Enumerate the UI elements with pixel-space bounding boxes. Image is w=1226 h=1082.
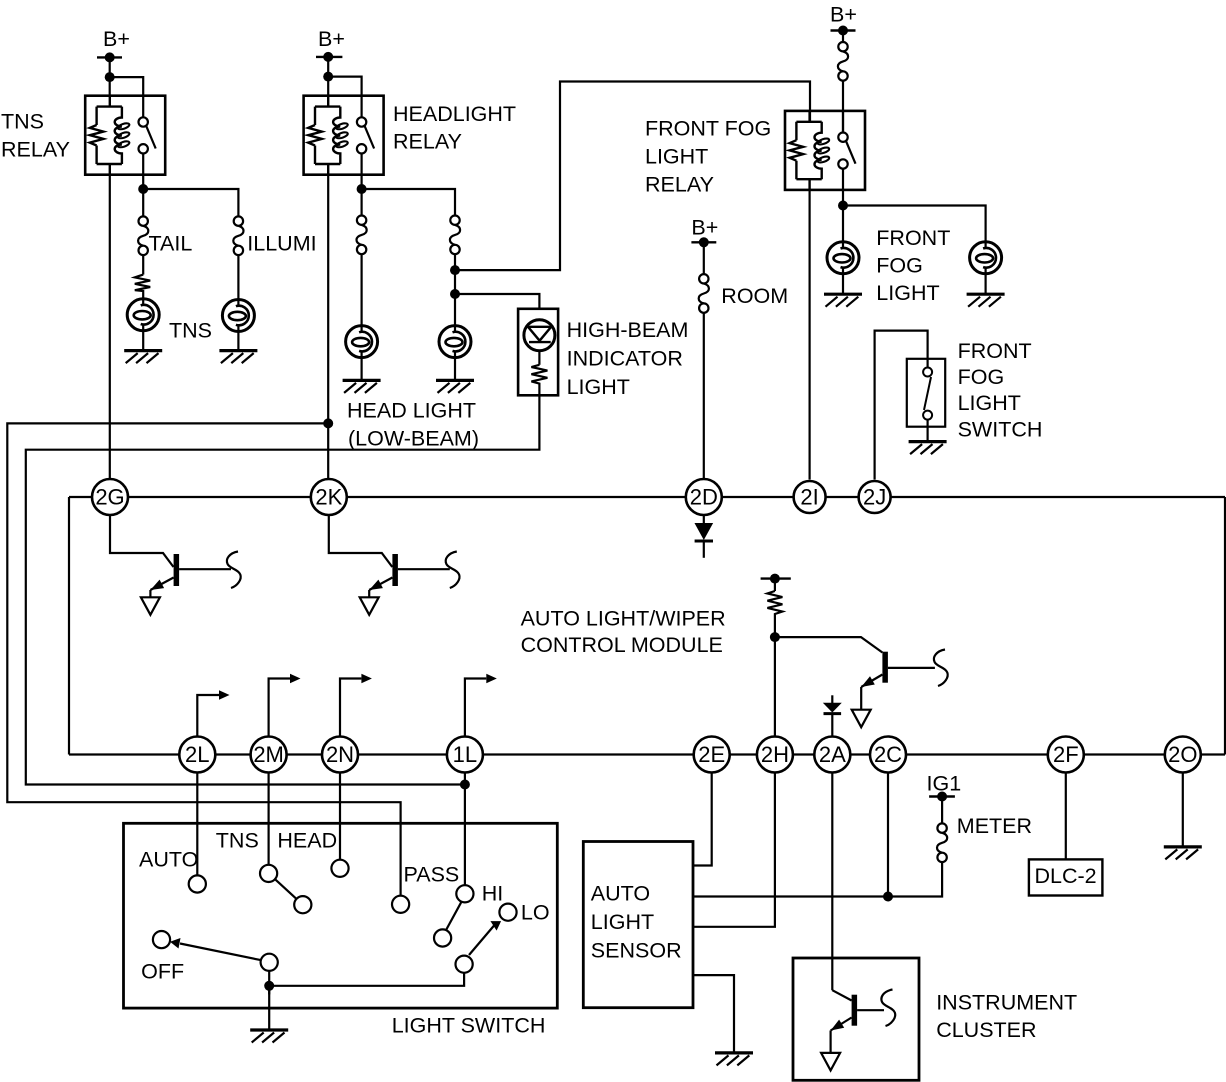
svg-text:HI: HI bbox=[482, 882, 504, 906]
bulb front fog left bbox=[827, 242, 859, 274]
node: low-beam junction bbox=[323, 418, 333, 428]
ground (ILLUMI bulb) bbox=[219, 351, 257, 364]
svg-text:METER: METER bbox=[957, 814, 1032, 838]
node: 1L junction bbox=[460, 780, 470, 790]
wire IG1 to fuse bbox=[941, 797, 943, 824]
wire tap to high-beam indicator bbox=[455, 294, 539, 309]
svg-text:2J: 2J bbox=[863, 485, 886, 510]
svg-text:2H: 2H bbox=[761, 742, 789, 767]
wire HL coil to 2K bbox=[327, 175, 329, 480]
wire 2N to HEAD contact bbox=[339, 772, 341, 860]
DLC-2 box bbox=[1029, 859, 1103, 895]
arrow above 2L bbox=[197, 695, 219, 737]
svg-text:ILLUMI: ILLUMI bbox=[247, 231, 316, 255]
wire junction to relay switch bbox=[110, 77, 144, 96]
ground (fog left) bbox=[824, 294, 862, 307]
wire ILLUMI fuse to bulb bbox=[237, 255, 239, 299]
bulb headlight left bbox=[346, 326, 378, 358]
contact TNS + blade bbox=[260, 865, 277, 882]
ground (Q1 emitter) bbox=[141, 597, 160, 615]
svg-text:LIGHT: LIGHT bbox=[958, 391, 1021, 415]
svg-text:TNS: TNS bbox=[216, 829, 259, 853]
node: 2C meter junction bbox=[883, 892, 893, 902]
wire 2O to ground bbox=[1182, 772, 1184, 847]
fuse (front fog relay) bbox=[838, 42, 848, 81]
wire TNS coil to 2G bbox=[109, 175, 111, 480]
svg-text:2K: 2K bbox=[315, 485, 342, 510]
wire headlight relay switch output bbox=[361, 175, 363, 216]
svg-text:HEAD: HEAD bbox=[277, 829, 337, 853]
indicator LED lamp bbox=[524, 320, 555, 351]
wire bulb to ground bbox=[984, 274, 986, 294]
transistor Q3 (module output) bbox=[775, 637, 935, 710]
svg-text:CONTROL MODULE: CONTROL MODULE bbox=[521, 633, 723, 657]
diode D1 (under 2D) bbox=[695, 515, 713, 558]
wire B+ to ROOM fuse bbox=[703, 242, 705, 274]
wire bulb to ground bbox=[842, 274, 844, 294]
wire 1L to HI contact bbox=[464, 772, 466, 885]
ground (headlight right) bbox=[436, 380, 474, 393]
wire 2C to meter line bbox=[887, 772, 889, 897]
node: switch common bbox=[264, 981, 274, 991]
instrument cluster box bbox=[793, 958, 919, 1080]
wire 2M to TNS contact bbox=[268, 772, 270, 865]
svg-text:2N: 2N bbox=[326, 742, 354, 767]
wire common to LO wiper bbox=[269, 973, 464, 986]
node: headlight fuses split bbox=[357, 184, 367, 194]
bulb ILLUMI bbox=[222, 300, 254, 332]
connector 2N bbox=[322, 737, 358, 773]
wire bulb to ground bbox=[361, 358, 363, 381]
svg-text:SWITCH: SWITCH bbox=[958, 418, 1043, 442]
wire to right headlight fuse bbox=[362, 189, 455, 216]
svg-text:FOG: FOG bbox=[876, 254, 923, 278]
B+ terminal tick (headlight relay feed) bbox=[316, 56, 342, 58]
svg-text:OFF: OFF bbox=[141, 960, 184, 984]
light switch box bbox=[124, 823, 558, 1008]
svg-text:2E: 2E bbox=[698, 742, 725, 767]
svg-text:2F: 2F bbox=[1053, 742, 1079, 767]
connector 2M bbox=[251, 737, 287, 773]
svg-text:RELAY: RELAY bbox=[1, 138, 70, 162]
fog switch contacts bbox=[923, 368, 932, 377]
svg-text:2L: 2L bbox=[185, 742, 209, 767]
auto light sensor box bbox=[583, 842, 693, 1008]
B+ terminal tick (IG1) bbox=[929, 795, 955, 797]
resistor R3 (module pull-up) bbox=[761, 574, 791, 643]
wire junction to relay switch bbox=[328, 77, 361, 96]
svg-text:AUTO: AUTO bbox=[591, 882, 650, 906]
wire right fuse down to bulb bbox=[454, 254, 456, 325]
svg-text:HEAD LIGHT: HEAD LIGHT bbox=[347, 399, 476, 423]
wire module right edge bbox=[1224, 497, 1226, 755]
transistor Q1 (2G driver) bbox=[110, 515, 231, 598]
connector 2H bbox=[757, 737, 793, 773]
wire tap to fog relay coil (top route) bbox=[455, 82, 810, 271]
svg-text:LO: LO bbox=[521, 901, 550, 925]
wire module bottom edge bbox=[69, 753, 1225, 755]
ground (light switch) bbox=[250, 1030, 288, 1043]
connector 2J bbox=[859, 481, 891, 513]
node: TAIL/ILLUMI split bbox=[138, 184, 148, 194]
wire resistor to 2H bbox=[774, 637, 776, 736]
svg-text:AUTO: AUTO bbox=[139, 848, 198, 872]
ground (fog right) bbox=[967, 294, 1005, 307]
svg-text:CLUSTER: CLUSTER bbox=[936, 1018, 1036, 1042]
svg-text:B+: B+ bbox=[691, 216, 718, 240]
diode D2 (above 2A) bbox=[824, 695, 842, 736]
svg-text:LIGHT: LIGHT bbox=[591, 910, 654, 934]
wire indicator to module wire2 bbox=[26, 395, 540, 784]
coil squiggle (Q1 collector) bbox=[227, 552, 241, 589]
svg-text:1L: 1L bbox=[453, 742, 477, 767]
svg-text:AUTO LIGHT/WIPER: AUTO LIGHT/WIPER bbox=[521, 607, 726, 631]
contact OFF wiper + arrow bbox=[261, 954, 278, 971]
svg-text:LIGHT: LIGHT bbox=[645, 145, 708, 169]
svg-text:DLC-2: DLC-2 bbox=[1035, 864, 1097, 888]
svg-text:SENSOR: SENSOR bbox=[591, 939, 682, 963]
svg-text:2A: 2A bbox=[819, 742, 846, 767]
wire B+ down to junction bbox=[327, 57, 329, 77]
transistor Q2 (2K driver) bbox=[329, 515, 450, 598]
wire TAIL fuse to resistor bbox=[142, 255, 144, 275]
wire module top edge bbox=[69, 496, 1225, 498]
svg-text:(LOW-BEAM): (LOW-BEAM) bbox=[348, 427, 479, 451]
wire TNS relay switch output bbox=[142, 175, 144, 217]
svg-text:HEADLIGHT: HEADLIGHT bbox=[393, 102, 516, 126]
wire OFF wiper to ground node bbox=[268, 971, 270, 995]
resistor R2 (indicator) bbox=[531, 365, 547, 396]
svg-text:B+: B+ bbox=[318, 27, 345, 51]
wire 2L to AUTO contact bbox=[196, 772, 198, 875]
wire bulb to ground bbox=[237, 332, 239, 351]
wire fuse to fog relay switch bbox=[842, 81, 844, 133]
wire1: low-beam to PASS bbox=[7, 423, 400, 895]
connector 2E bbox=[694, 737, 730, 773]
bulb TNS bbox=[127, 299, 159, 331]
ground (fog switch) bbox=[909, 442, 947, 455]
high-beam indicator light box bbox=[518, 309, 558, 396]
TNS relay U1 bbox=[85, 96, 165, 175]
svg-text:TAIL: TAIL bbox=[149, 231, 193, 255]
connector 2I bbox=[794, 481, 826, 513]
wire B+ down to junction bbox=[109, 57, 111, 77]
wire sensor to meter fuse bbox=[693, 862, 942, 896]
ground (TNS bulb) bbox=[124, 351, 162, 364]
connector 2C bbox=[870, 737, 906, 773]
svg-text:INSTRUMENT: INSTRUMENT bbox=[936, 991, 1077, 1015]
connector 2F bbox=[1048, 737, 1084, 773]
connector 2O bbox=[1165, 737, 1201, 773]
resistor R1 (TNS bulb dropping) bbox=[135, 275, 150, 299]
wire module left edge bbox=[68, 497, 70, 755]
node: fog bulbs split bbox=[838, 201, 848, 211]
svg-text:LIGHT: LIGHT bbox=[876, 281, 939, 305]
wire 2F to DLC-2 bbox=[1065, 772, 1067, 859]
ground (Q4 emitter) bbox=[821, 1053, 840, 1071]
svg-text:LIGHT: LIGHT bbox=[567, 375, 630, 399]
node: TNS relay B+ junction bbox=[105, 72, 115, 82]
fuse METER bbox=[937, 823, 947, 862]
wire B+ to fog fuse bbox=[842, 31, 844, 43]
bulb front fog right bbox=[970, 242, 1002, 274]
svg-text:FRONT: FRONT bbox=[876, 226, 950, 250]
svg-text:B+: B+ bbox=[830, 3, 857, 27]
wire LED to resistor bbox=[538, 351, 540, 365]
contact LO wiper + arrow bbox=[456, 956, 473, 973]
fog switch blade bbox=[924, 377, 931, 410]
fuse TAIL bbox=[138, 216, 148, 255]
wire sensor ground bbox=[693, 975, 734, 1053]
contact PASS bbox=[392, 896, 409, 913]
wire junction to relay coil bbox=[109, 77, 111, 96]
svg-text:RELAY: RELAY bbox=[645, 173, 714, 197]
arrow above 2N bbox=[340, 679, 361, 737]
fuse headlight left bbox=[357, 216, 367, 255]
transistor Q4 (instrument cluster) bbox=[831, 990, 884, 1053]
node: fog feed tap bbox=[450, 265, 460, 275]
svg-text:LIGHT SWITCH: LIGHT SWITCH bbox=[392, 1014, 546, 1038]
ground (2O) bbox=[1164, 847, 1202, 860]
svg-text:PASS: PASS bbox=[404, 863, 460, 887]
connector 2K bbox=[311, 479, 347, 515]
connector 2L bbox=[179, 737, 215, 773]
headlight relay U2 bbox=[304, 96, 384, 175]
wire 2E to sensor bbox=[693, 772, 712, 866]
contact LO bbox=[499, 904, 516, 921]
B+ terminal tick (front fog relay feed) bbox=[831, 29, 856, 31]
ground (Q3 emitter) bbox=[852, 710, 871, 728]
connector 2G bbox=[92, 479, 128, 515]
wire ROOM fuse to 2D bbox=[703, 313, 705, 480]
connector 2A bbox=[814, 737, 850, 773]
svg-text:2M: 2M bbox=[253, 742, 284, 767]
ground (sensor) bbox=[715, 1053, 753, 1066]
connector 1L bbox=[447, 737, 483, 773]
wire bulb to ground bbox=[142, 331, 144, 351]
front fog light relay U3 bbox=[785, 111, 865, 190]
wire to ILLUMI fuse bbox=[143, 189, 238, 216]
svg-text:ROOM: ROOM bbox=[721, 284, 788, 308]
svg-text:TNS: TNS bbox=[169, 319, 212, 343]
arrow above 2M bbox=[269, 679, 290, 737]
wire fog relay coil to 2I bbox=[808, 190, 810, 480]
wire 2J to fog switch bbox=[875, 331, 928, 480]
svg-text:RELAY: RELAY bbox=[393, 130, 462, 154]
ground (headlight left) bbox=[343, 380, 381, 393]
wire 2A to instrument cluster bbox=[831, 772, 833, 990]
contact AUTO bbox=[189, 875, 206, 892]
svg-text:2C: 2C bbox=[874, 742, 902, 767]
svg-text:INDICATOR: INDICATOR bbox=[567, 347, 683, 371]
coil squiggle (Q2 collector) bbox=[446, 552, 460, 589]
wire common to ground bbox=[268, 986, 270, 1030]
contact HI + blade bbox=[456, 885, 473, 902]
wire junction to relay coil bbox=[327, 77, 329, 96]
node: high-beam tap bbox=[450, 289, 460, 299]
contact OFF bbox=[153, 931, 170, 948]
coil squiggle (Q4 collector) bbox=[881, 990, 895, 1027]
B+ terminal tick (TNS relay feed) bbox=[97, 56, 122, 58]
B+ terminal tick (room) bbox=[691, 241, 716, 243]
fuse headlight right bbox=[450, 216, 460, 255]
svg-text:FOG: FOG bbox=[958, 365, 1005, 389]
fuse ROOM bbox=[699, 274, 709, 313]
svg-text:FRONT FOG: FRONT FOG bbox=[645, 117, 771, 141]
svg-text:TNS: TNS bbox=[1, 110, 44, 134]
contact HEAD bbox=[331, 860, 348, 877]
wire 2H to sensor bbox=[693, 772, 775, 927]
svg-text:HIGH-BEAM: HIGH-BEAM bbox=[567, 318, 689, 342]
connector 2D bbox=[686, 479, 722, 515]
wire left fuse to bulb bbox=[361, 254, 363, 325]
fuse ILLUMI bbox=[233, 216, 243, 255]
wire to right fog bulb bbox=[843, 206, 986, 242]
wire switch to ground bbox=[926, 420, 928, 442]
wire bulb to ground bbox=[454, 358, 456, 381]
svg-text:FRONT: FRONT bbox=[958, 339, 1032, 363]
svg-text:2I: 2I bbox=[800, 485, 818, 510]
fog switch box bbox=[907, 359, 945, 427]
bulb headlight right bbox=[439, 326, 471, 358]
coil squiggle (Q3 collector) bbox=[934, 650, 948, 687]
node: headlight relay B+ junction bbox=[323, 72, 333, 82]
arrow above 1L bbox=[465, 679, 486, 737]
svg-text:2D: 2D bbox=[690, 485, 718, 510]
ground (Q2 emitter) bbox=[360, 597, 379, 615]
svg-text:2G: 2G bbox=[95, 485, 124, 510]
svg-text:2O: 2O bbox=[1168, 742, 1197, 767]
svg-text:B+: B+ bbox=[103, 27, 130, 51]
wire fog relay switch output bbox=[842, 190, 844, 242]
